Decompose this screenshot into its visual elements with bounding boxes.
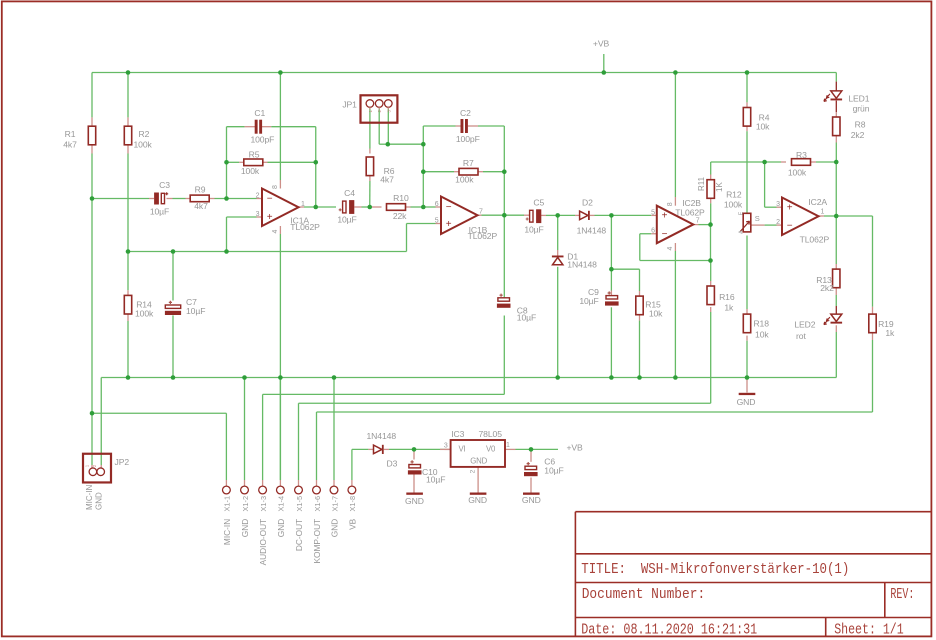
svg-text:8: 8 <box>667 202 674 206</box>
svg-text:+: + <box>787 202 793 213</box>
svg-text:+: + <box>267 212 273 223</box>
svg-text:LED2: LED2 <box>794 320 815 330</box>
svg-text:GND: GND <box>240 519 250 537</box>
svg-text:+: + <box>446 219 452 230</box>
svg-text:−: − <box>662 229 668 240</box>
svg-text:MIC-IN: MIC-IN <box>222 519 232 545</box>
svg-text:7: 7 <box>696 218 700 225</box>
svg-text:R16: R16 <box>719 292 735 302</box>
svg-text:1k: 1k <box>724 303 734 313</box>
svg-text:10µF: 10µF <box>579 296 598 306</box>
svg-text:R7: R7 <box>463 158 474 168</box>
svg-text:4: 4 <box>667 247 674 251</box>
svg-text:100k: 100k <box>788 167 807 177</box>
svg-text:X1-4: X1-4 <box>277 496 286 512</box>
svg-text:5: 5 <box>435 218 439 225</box>
svg-text:X1-8: X1-8 <box>348 496 357 512</box>
svg-text:TL062P: TL062P <box>800 235 830 245</box>
svg-text:VB: VB <box>347 518 357 530</box>
svg-text:GND: GND <box>95 492 104 510</box>
svg-text:−: − <box>787 220 793 231</box>
svg-text:10k: 10k <box>756 121 770 131</box>
svg-text:D3: D3 <box>387 458 398 468</box>
svg-text:Sheet: 1/1: Sheet: 1/1 <box>834 622 904 639</box>
svg-text:IC2B: IC2B <box>682 198 701 208</box>
svg-text:100k: 100k <box>241 166 260 176</box>
svg-text:100pF: 100pF <box>456 134 480 144</box>
svg-text:GND: GND <box>330 519 340 537</box>
svg-text:1: 1 <box>301 201 305 208</box>
svg-text:Document Number:: Document Number: <box>582 586 706 603</box>
svg-text:10µF: 10µF <box>150 207 169 217</box>
svg-text:1k: 1k <box>885 328 895 338</box>
svg-text:4k7: 4k7 <box>63 140 77 150</box>
svg-text:100k: 100k <box>724 199 743 209</box>
svg-text:10µF: 10µF <box>186 306 205 316</box>
svg-text:X1-3: X1-3 <box>259 496 268 512</box>
svg-text:X1-5: X1-5 <box>295 496 304 512</box>
svg-text:1: 1 <box>821 209 825 216</box>
svg-text:grün: grün <box>853 104 870 114</box>
svg-text:GND: GND <box>522 495 541 505</box>
svg-text:2k2: 2k2 <box>851 130 865 140</box>
svg-text:C4: C4 <box>344 188 355 198</box>
svg-text:X1-7: X1-7 <box>330 496 339 512</box>
svg-text:DC-OUT: DC-OUT <box>294 519 304 551</box>
svg-text:X1-6: X1-6 <box>313 496 322 512</box>
svg-text:1: 1 <box>84 464 89 467</box>
svg-text:R11: R11 <box>697 176 706 191</box>
svg-text:1: 1 <box>506 442 510 449</box>
svg-text:10µF: 10µF <box>517 313 536 323</box>
svg-text:78L05: 78L05 <box>479 429 503 439</box>
svg-text:D2: D2 <box>582 198 593 208</box>
svg-text:R8: R8 <box>855 120 866 130</box>
svg-text:1N4148: 1N4148 <box>367 431 397 441</box>
svg-text:C5: C5 <box>533 198 544 208</box>
svg-text:LED1: LED1 <box>848 94 869 104</box>
svg-text:10µF: 10µF <box>426 474 445 484</box>
svg-text:R9: R9 <box>195 185 206 195</box>
svg-text:100k: 100k <box>135 309 154 319</box>
svg-text:10µF: 10µF <box>524 225 543 235</box>
svg-text:100k: 100k <box>455 175 474 185</box>
svg-text:MIC-IN: MIC-IN <box>85 484 94 510</box>
svg-text:+: + <box>662 211 668 222</box>
svg-text:1K: 1K <box>715 182 724 192</box>
svg-text:IC2A: IC2A <box>808 197 827 207</box>
svg-text:10µF: 10µF <box>337 215 356 225</box>
svg-text:7: 7 <box>479 208 483 215</box>
svg-text:KOMP-OUT: KOMP-OUT <box>312 519 322 564</box>
svg-text:4k7: 4k7 <box>380 175 394 185</box>
svg-text:TITLE: WSH-Mikrofonverstärker: TITLE: WSH-Mikrofonverstärker-10(1) <box>581 561 849 578</box>
svg-text:3: 3 <box>776 201 780 208</box>
svg-text:100pF: 100pF <box>250 135 274 145</box>
svg-text:IC3: IC3 <box>451 429 464 439</box>
svg-text:6: 6 <box>651 228 655 235</box>
svg-text:100k: 100k <box>134 140 153 150</box>
svg-text:+VB: +VB <box>593 38 610 48</box>
svg-text:TL062P: TL062P <box>290 222 320 232</box>
svg-text:+VB: +VB <box>567 442 584 452</box>
svg-text:R5: R5 <box>249 150 260 160</box>
svg-text:3: 3 <box>444 443 448 450</box>
svg-text:10k: 10k <box>755 329 769 339</box>
svg-text:22k: 22k <box>393 211 407 221</box>
svg-text:2: 2 <box>470 469 477 473</box>
svg-text:R3: R3 <box>796 150 807 160</box>
svg-text:A: A <box>738 230 744 234</box>
svg-text:R1: R1 <box>65 129 76 139</box>
svg-text:2k2: 2k2 <box>820 283 834 293</box>
svg-text:2: 2 <box>92 464 97 467</box>
svg-text:C1: C1 <box>254 108 265 118</box>
svg-text:2: 2 <box>256 192 260 199</box>
svg-text:GND: GND <box>468 495 487 505</box>
svg-text:V0: V0 <box>486 445 496 454</box>
svg-text:6: 6 <box>435 201 439 208</box>
svg-text:R12: R12 <box>726 189 742 199</box>
svg-text:C2: C2 <box>460 108 471 118</box>
svg-text:TL062P: TL062P <box>675 208 705 218</box>
svg-text:GND: GND <box>405 496 424 506</box>
svg-text:4k7: 4k7 <box>194 201 208 211</box>
svg-text:VI: VI <box>458 445 465 454</box>
svg-text:S: S <box>755 214 760 223</box>
svg-text:8: 8 <box>272 185 279 189</box>
svg-text:E: E <box>738 211 744 215</box>
svg-text:R2: R2 <box>139 129 150 139</box>
svg-text:Date: 08.11.2020 16:21:31: Date: 08.11.2020 16:21:31 <box>581 622 757 639</box>
svg-text:R18: R18 <box>753 319 769 329</box>
svg-text:GND: GND <box>470 456 487 465</box>
svg-text:−: − <box>446 202 452 213</box>
svg-text:3: 3 <box>256 211 260 218</box>
svg-text:R10: R10 <box>393 193 409 203</box>
svg-text:10µF: 10µF <box>544 465 563 475</box>
svg-text:2: 2 <box>776 219 780 226</box>
svg-text:AUDIO-OUT: AUDIO-OUT <box>258 519 268 566</box>
svg-text:C3: C3 <box>159 180 170 190</box>
svg-text:1N4148: 1N4148 <box>567 260 597 270</box>
svg-text:JP2: JP2 <box>115 457 130 467</box>
svg-text:−: − <box>267 194 273 205</box>
svg-text:GND: GND <box>737 397 756 407</box>
svg-text:rot: rot <box>796 331 806 341</box>
svg-text:X1-2: X1-2 <box>241 496 250 512</box>
svg-text:1N4148: 1N4148 <box>577 225 607 235</box>
svg-text:TL062P: TL062P <box>468 231 498 241</box>
svg-text:4: 4 <box>272 229 279 233</box>
svg-text:X1-1: X1-1 <box>223 496 232 512</box>
svg-text:JP1: JP1 <box>342 100 357 110</box>
svg-text:10k: 10k <box>649 308 663 318</box>
svg-text:GND: GND <box>276 519 286 537</box>
svg-text:5: 5 <box>651 209 655 216</box>
svg-text:REV:: REV: <box>890 586 914 603</box>
